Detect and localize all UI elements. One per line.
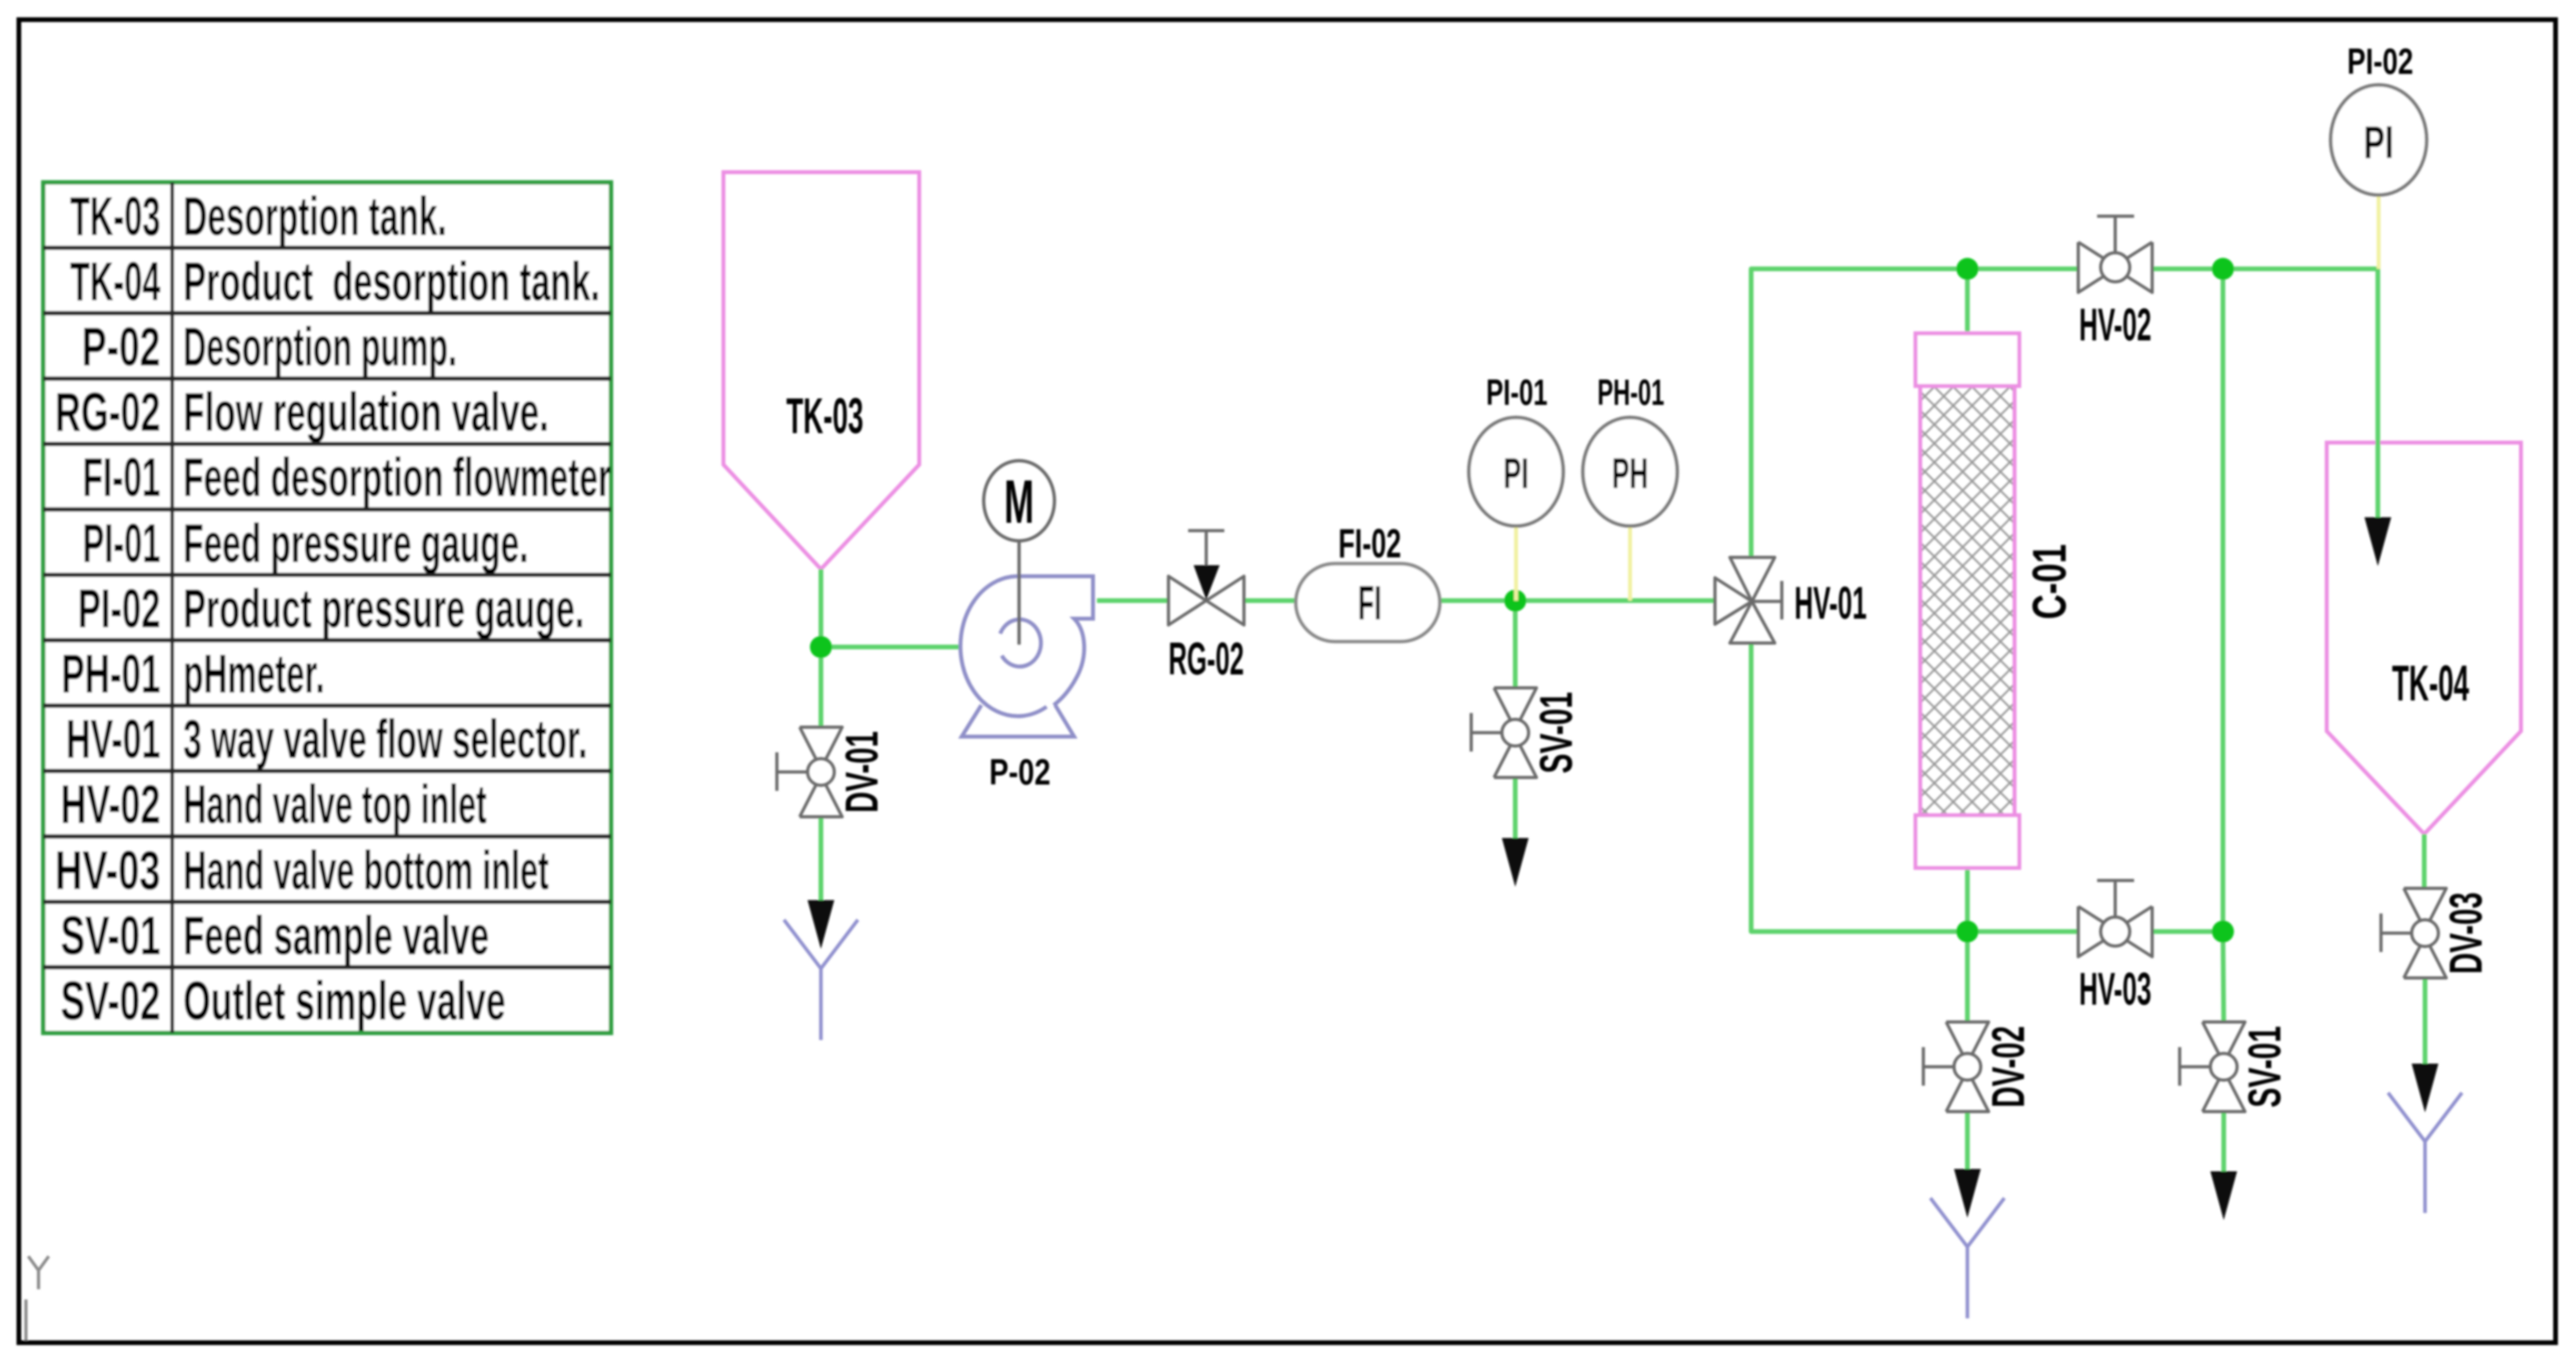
svg-text:FI: FI xyxy=(1358,576,1382,630)
svg-text:Desorption tank.: Desorption tank. xyxy=(183,186,447,247)
node TK-03 outlet junction xyxy=(810,636,832,658)
drain arrow below SV-01 feed xyxy=(1502,838,1529,887)
svg-text:PI-01: PI-01 xyxy=(1486,372,1547,413)
wire FI-02 to HV-01 xyxy=(1440,598,1715,603)
wire suction to pump xyxy=(821,645,962,649)
node top rail right junction xyxy=(2212,258,2234,280)
wire DV-02 to drain xyxy=(1965,1110,1970,1171)
svg-text:SV-01: SV-01 xyxy=(1531,692,1582,774)
valve HV-01 3-way body xyxy=(1715,557,1782,643)
wire PH-01 tap xyxy=(1628,526,1632,601)
svg-text:Feed pressure gauge.: Feed pressure gauge. xyxy=(183,513,528,574)
drain Y below DV-01 xyxy=(784,920,858,1040)
tank TK-03 xyxy=(723,172,919,569)
svg-text:PI: PI xyxy=(2364,117,2394,168)
svg-text:HV-03: HV-03 xyxy=(55,840,160,901)
valve DV-02 body xyxy=(1923,1022,1989,1112)
svg-text:SV-01: SV-01 xyxy=(61,905,160,966)
svg-text:Product desorption tank.: Product desorption tank. xyxy=(183,251,600,312)
svg-text:HV-03: HV-03 xyxy=(2079,964,2151,1015)
legend row PI-02 xyxy=(78,578,584,639)
valve DV-03 body xyxy=(2381,888,2446,978)
legend row FI-01 xyxy=(83,447,611,508)
svg-text:C-01: C-01 xyxy=(2023,544,2076,619)
wire top rail to C-01 top xyxy=(1965,269,1970,333)
tank TK-04 xyxy=(2327,443,2521,834)
svg-text:PH: PH xyxy=(1612,449,1648,498)
legend row TK-04 xyxy=(70,251,600,312)
svg-text:Product pressure gauge.: Product pressure gauge. xyxy=(183,578,584,639)
svg-text:PI-02: PI-02 xyxy=(78,578,160,639)
drain Y below DV-02 xyxy=(1930,1198,2004,1318)
svg-text:Hand valve bottom inlet: Hand valve bottom inlet xyxy=(183,840,549,901)
svg-text:SV-01: SV-01 xyxy=(2239,1026,2291,1108)
wire SV-01 to drain xyxy=(1513,777,1518,841)
svg-text:PI: PI xyxy=(1503,449,1529,498)
wire PI-02 tap xyxy=(2377,195,2381,269)
svg-text:PI-01: PI-01 xyxy=(83,513,160,574)
wire TK-03 outlet down xyxy=(819,569,823,647)
svg-text:HV-01: HV-01 xyxy=(66,708,160,770)
svg-text:FI-01: FI-01 xyxy=(83,447,160,508)
wire DV-01 to drain xyxy=(819,816,823,904)
legend row HV-02 xyxy=(61,774,487,835)
svg-text:TK-04: TK-04 xyxy=(70,251,160,312)
wire top rail right into TK-04 xyxy=(2152,269,2378,519)
svg-text:HV-02: HV-02 xyxy=(2079,300,2151,351)
svg-text:PH-01: PH-01 xyxy=(61,643,160,704)
legend table grid xyxy=(43,182,611,1033)
svg-text:Feed sample valve: Feed sample valve xyxy=(183,905,489,966)
wire C-01 bottom to rail xyxy=(1965,867,1970,932)
wire HV-01 down riser and bottom rail left xyxy=(1751,643,2078,932)
valve RG-02 body xyxy=(1168,531,1244,625)
svg-text:TK-03: TK-03 xyxy=(70,186,160,247)
svg-text:SV-02: SV-02 xyxy=(61,970,160,1031)
svg-text:Flow regulation valve.: Flow regulation valve. xyxy=(183,381,549,443)
legend row HV-01 xyxy=(66,708,587,770)
column C-01 xyxy=(1915,333,2019,868)
svg-text:FI-02: FI-02 xyxy=(1338,521,1401,567)
wire pump discharge to RG-02 xyxy=(1097,598,1168,603)
svg-text:Feed desorption flowmeter: Feed desorption flowmeter xyxy=(183,447,611,508)
valve DV-01 body xyxy=(777,727,842,817)
drain arrow below DV-03 xyxy=(2412,1064,2438,1112)
svg-text:pHmeter.: pHmeter. xyxy=(183,643,325,704)
flowmeter FI-02 xyxy=(1296,564,1440,641)
svg-text:PH-01: PH-01 xyxy=(1598,372,1665,413)
svg-text:PI-02: PI-02 xyxy=(2347,41,2413,82)
svg-text:Outlet simple valve: Outlet simple valve xyxy=(183,970,506,1031)
svg-text:Desorption pump.: Desorption pump. xyxy=(183,316,457,377)
svg-text:RG-02: RG-02 xyxy=(1168,634,1244,685)
node bottom rail C-01 junction xyxy=(1956,921,1978,943)
svg-text:DV-02: DV-02 xyxy=(1983,1026,2034,1108)
node feed line junction xyxy=(1504,590,1526,612)
valve HV-03 body xyxy=(2078,880,2152,957)
svg-text:RG-02: RG-02 xyxy=(55,381,160,443)
wire PI-01 tap xyxy=(1514,526,1518,601)
drain Y below DV-03 xyxy=(2388,1093,2462,1213)
wire to DV-02 xyxy=(1965,932,1970,1024)
legend row RG-02 xyxy=(55,381,549,443)
drain arrow below DV-02 xyxy=(1954,1169,1981,1218)
node bottom rail right junction xyxy=(2212,921,2234,943)
legend row PI-01 xyxy=(83,513,528,574)
legend row SV-02 xyxy=(61,970,506,1031)
svg-text:Hand valve top inlet: Hand valve top inlet xyxy=(183,774,487,835)
drain arrow below SV-01 bottom xyxy=(2210,1171,2237,1220)
gauge PI-02 xyxy=(2331,85,2427,195)
wire down to SV-01 xyxy=(1513,601,1518,689)
legend row TK-03 xyxy=(70,186,447,247)
pump P-02 xyxy=(960,576,1093,737)
wire down to DV-01 xyxy=(819,647,823,728)
svg-text:HV-02: HV-02 xyxy=(61,774,160,835)
legend row HV-03 xyxy=(55,840,549,901)
gauge PH-01 xyxy=(1583,417,1677,526)
svg-text:3 way valve flow selector.: 3 way valve flow selector. xyxy=(183,708,587,770)
svg-text:DV-03: DV-03 xyxy=(2441,892,2492,974)
svg-text:HV-01: HV-01 xyxy=(1794,578,1867,629)
node top rail C-01 junction xyxy=(1956,258,1978,280)
svg-text:M: M xyxy=(1004,467,1034,536)
legend row SV-01 xyxy=(61,905,489,966)
svg-text:DV-01: DV-01 xyxy=(837,731,888,813)
svg-text:P-02: P-02 xyxy=(82,316,160,377)
inlet arrow into TK-04 xyxy=(2364,517,2391,566)
wire to SV-01 bottom xyxy=(2223,932,2224,1024)
wire DV-03 to drain xyxy=(2423,976,2427,1067)
wire TK-04 to DV-03 xyxy=(2422,834,2427,890)
valve SV-01 body xyxy=(1471,688,1536,777)
svg-text:TK-04: TK-04 xyxy=(2392,655,2469,711)
motor M of pump xyxy=(984,461,1054,645)
UCS axis Y marker (soft) xyxy=(26,1256,49,1340)
wire HV-01 up riser and top rail left xyxy=(1751,269,2078,557)
wire SV-01 bottom to drain xyxy=(2221,1110,2226,1173)
valve SV-01 body xyxy=(2180,1022,2245,1112)
valve HV-02 body xyxy=(2078,216,2152,292)
legend row P-02 xyxy=(82,316,457,377)
svg-text:P-02: P-02 xyxy=(989,752,1051,792)
wire RG-02 to FI-02 xyxy=(1244,598,1296,603)
svg-text:TK-03: TK-03 xyxy=(786,388,863,444)
drain arrow below DV-01 xyxy=(808,900,834,949)
wire right riser xyxy=(2221,269,2225,932)
gauge PI-01 xyxy=(1469,417,1563,526)
wire bottom rail right xyxy=(2152,929,2223,934)
legend row PH-01 xyxy=(61,643,325,704)
